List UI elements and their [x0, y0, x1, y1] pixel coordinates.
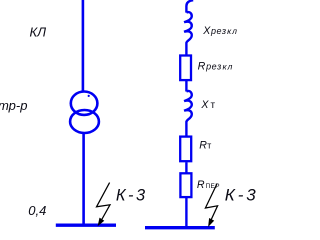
svg-text:КЛ: КЛ	[30, 25, 47, 40]
resistor Rпер (rectangle)	[180, 173, 191, 197]
transformer T1 secondary winding circle	[70, 110, 99, 133]
svg-text:Rт: Rт	[199, 140, 211, 152]
fault bolt K-3 (left short-circuit arrow)	[97, 183, 111, 221]
fault bolt K-3 (right short-circuit arrow)	[205, 184, 217, 221]
svg-text:Хрезкл: Хрезкл	[202, 25, 238, 37]
inductor Хрезкл (coil, 3 loops)	[184, 12, 192, 55]
resistor Rт (rectangle)	[180, 137, 191, 162]
busbar 0,4 kV (left)	[56, 223, 116, 226]
svg-text:К-3: К-3	[116, 186, 148, 204]
fault arrowhead (right)	[208, 218, 214, 227]
svg-text:Rрезкл: Rрезкл	[198, 60, 234, 72]
fault arrowhead (left)	[98, 218, 105, 227]
svg-text:Хт: Хт	[200, 99, 215, 111]
wire: transformer to 0,4 kV busbar	[82, 134, 85, 226]
wire: Rпер to busbar	[185, 198, 187, 228]
inductor Хт (coil, 3 loops)	[184, 91, 192, 136]
resistor Rрезкл (rectangle)	[180, 56, 191, 81]
busbar (right, fault point)	[145, 226, 215, 229]
svg-text:0,4: 0,4	[28, 203, 46, 218]
transformer T1 primary winding circle	[71, 92, 98, 115]
svg-text:К-3: К-3	[225, 186, 259, 205]
wire: Rрезкл to Хт	[185, 81, 187, 92]
wire: left feeder drop from top (КЛ cable line)	[82, 0, 85, 92]
wire: Rт to Rпер	[185, 162, 187, 173]
svg-text:тр-р: тр-р	[0, 98, 27, 113]
wire: top entry hook of equivalent circuit	[186, 0, 193, 12]
transformer winding dot	[88, 95, 90, 97]
